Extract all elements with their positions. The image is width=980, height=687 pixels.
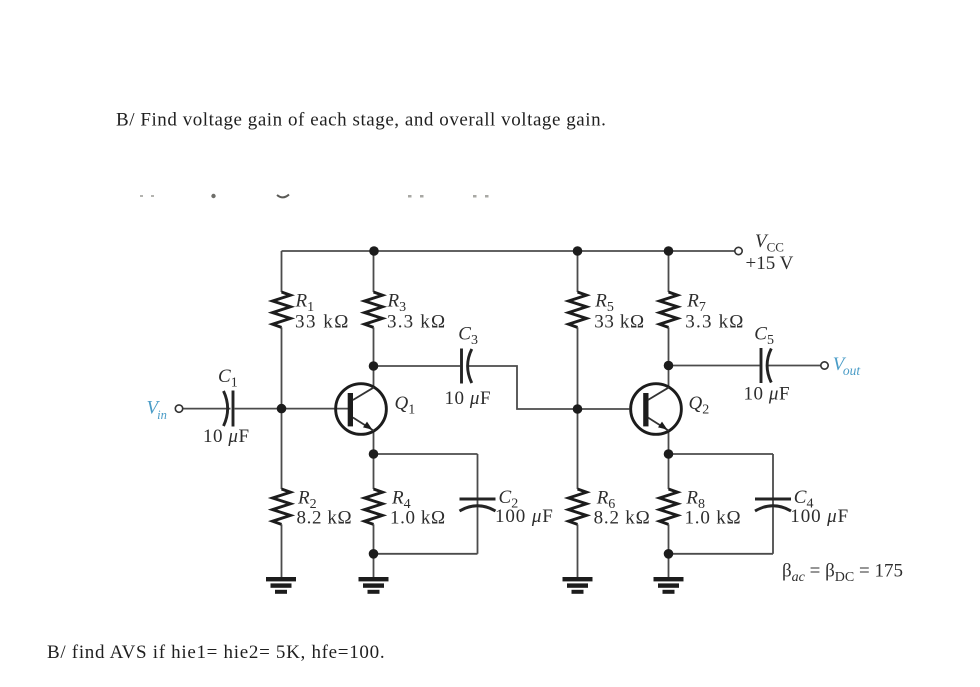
svg-text:B/ find AVS if hie1= hie2= 5K,: B/ find AVS if hie1= hie2= 5K, hfe=100. [47,642,385,663]
svg-text:3.3 kΩ: 3.3 kΩ [685,312,744,333]
svg-text:B/ Find voltage gain of each s: B/ Find voltage gain of each stage, and … [116,110,606,131]
svg-text:Vout: Vout [833,354,862,378]
svg-text:VCC: VCC [755,231,784,255]
svg-text:100 μF: 100 μF [790,506,849,527]
svg-text:10 μF: 10 μF [445,388,492,409]
svg-text:3.3 kΩ: 3.3 kΩ [387,312,446,333]
svg-text:Vin: Vin [147,398,167,423]
svg-text:βac = βDC = 175: βac = βDC = 175 [782,561,903,586]
svg-text:100 μF: 100 μF [495,506,554,527]
svg-text:33 kΩ: 33 kΩ [594,312,644,333]
svg-text:8.2 kΩ: 8.2 kΩ [297,508,353,529]
svg-text:Q2: Q2 [689,393,710,418]
svg-text:10 μF: 10 μF [203,426,250,447]
svg-text:8.2 kΩ: 8.2 kΩ [594,508,651,529]
svg-text:C1: C1 [218,366,238,391]
svg-text:C5: C5 [754,324,774,349]
svg-text:C3: C3 [458,324,478,349]
svg-text:Q1: Q1 [395,393,416,418]
svg-text:33 kΩ: 33 kΩ [295,312,350,333]
svg-text:1.0 kΩ: 1.0 kΩ [685,508,742,529]
svg-text:+15 V: +15 V [746,253,794,274]
svg-text:10 μF: 10 μF [744,384,791,405]
svg-text:1.0 kΩ: 1.0 kΩ [390,508,446,529]
